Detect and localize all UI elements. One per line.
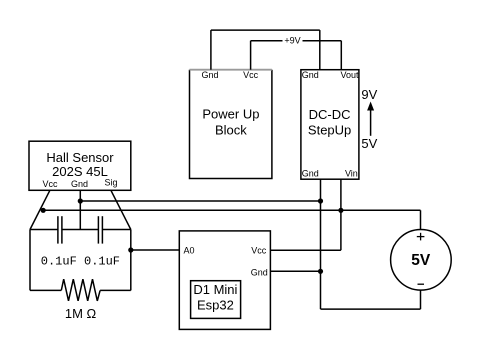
svg-text:DC-DC: DC-DC [309, 107, 351, 122]
minus sign of source V1 [418, 283, 425, 285]
wire Hall Vcc diagonal [30, 190, 50, 229]
wire vcc net horizontal y210 [43, 209, 341, 211]
wire DC-DC Vin vertical [340, 179, 342, 250]
svg-text:Vcc: Vcc [42, 179, 58, 189]
svg-text:Block: Block [215, 123, 247, 138]
svg-text:Gnd: Gnd [201, 70, 218, 80]
wire DC-DC Vout top stub [340, 41, 342, 70]
block U4 Hall Sensor 202S 45L [29, 141, 131, 190]
block U3 DC-DC StepUp [301, 70, 359, 180]
wire top gnd horizontal [211, 29, 320, 31]
wire +9V horizontal right segment [303, 40, 342, 42]
wire D1 Gnd to gnd net [270, 270, 320, 272]
wire down to 5V plus terminal [420, 210, 422, 229]
svg-text:9V: 9V [361, 87, 377, 102]
svg-text:Vcc: Vcc [243, 70, 259, 80]
wire Hall Gnd vertical [79, 190, 81, 229]
svg-text:Vcc: Vcc [251, 245, 267, 255]
svg-text:D1 Mini: D1 Mini [193, 282, 237, 297]
wire RC loop top segment 2 [62, 229, 99, 231]
block U2 Power Up Block [190, 70, 272, 179]
svg-text:Esp32: Esp32 [197, 298, 234, 313]
svg-text:202S 45L: 202S 45L [52, 164, 108, 179]
wire RC loop bottom right segment [100, 289, 131, 291]
svg-text:1M Ω: 1M Ω [65, 306, 97, 321]
arrow 9V-5V head [367, 102, 374, 111]
capacitor C2 plates [98, 216, 102, 243]
svg-text:Gnd: Gnd [302, 70, 319, 80]
svg-text:5V: 5V [361, 136, 377, 151]
junction dot node vin-5v [338, 208, 343, 213]
wire Power Up Gnd stub up [210, 30, 212, 70]
svg-text:Hall Sensor: Hall Sensor [46, 150, 114, 165]
svg-text:0.1uF 0.1uF: 0.1uF 0.1uF [41, 254, 120, 268]
wire RC loop top segment 3 [102, 229, 130, 231]
wire D1 Vcc to Vin net [270, 249, 341, 251]
block U1 D1 Mini Esp32 outer [179, 231, 270, 330]
resistor R1 zigzag [61, 279, 100, 301]
svg-text:A0: A0 [183, 245, 194, 255]
junction dot node gnd-dcdc [318, 198, 323, 203]
wire 5V minus terminal stub [420, 290, 422, 309]
svg-text:Vout: Vout [340, 70, 359, 80]
svg-text:5V: 5V [411, 252, 431, 269]
junction dot node gnd-d1 [318, 269, 323, 274]
plus sign of source V1 [417, 233, 425, 241]
wire bottom gnd horizontal [321, 308, 421, 310]
svg-text:Gnd: Gnd [71, 179, 88, 189]
junction dot node vcc-diag [41, 208, 46, 213]
wire gnd net horizontal y201 [80, 200, 320, 202]
wire DC-DC Gnd vertical [320, 179, 322, 309]
wire Hall Sig diagonal [111, 190, 131, 229]
wire +9V horizontal left segment [251, 40, 283, 42]
source V1 5V circle [391, 229, 452, 290]
wire DC-DC Gnd top stub [319, 30, 321, 70]
svg-text:Gnd: Gnd [302, 169, 319, 179]
svg-text:+9V: +9V [284, 36, 300, 46]
svg-text:Vin: Vin [345, 169, 358, 179]
svg-text:Sig: Sig [104, 177, 117, 187]
capacitor C1 plates [58, 216, 62, 243]
svg-text:Gnd: Gnd [251, 268, 268, 278]
wire sig to A0 [131, 249, 180, 251]
arrow 9V-5V shaft [370, 110, 372, 136]
wire RC loop right edge [130, 230, 132, 291]
wire Power Up Vcc stub up [250, 41, 252, 70]
svg-text:StepUp: StepUp [308, 122, 351, 137]
wire RC loop top segment 1 [30, 229, 58, 231]
junction dot node gnd-vert [78, 198, 83, 203]
wire RC loop left edge [29, 230, 31, 291]
wire RC loop bottom left segment [30, 289, 61, 291]
wire vcc net to 5V plus [341, 209, 421, 211]
block U1 D1 Mini Esp32 inner label box [191, 281, 241, 319]
junction dot node sig-A0 [128, 247, 133, 252]
svg-text:Power Up: Power Up [202, 107, 259, 122]
